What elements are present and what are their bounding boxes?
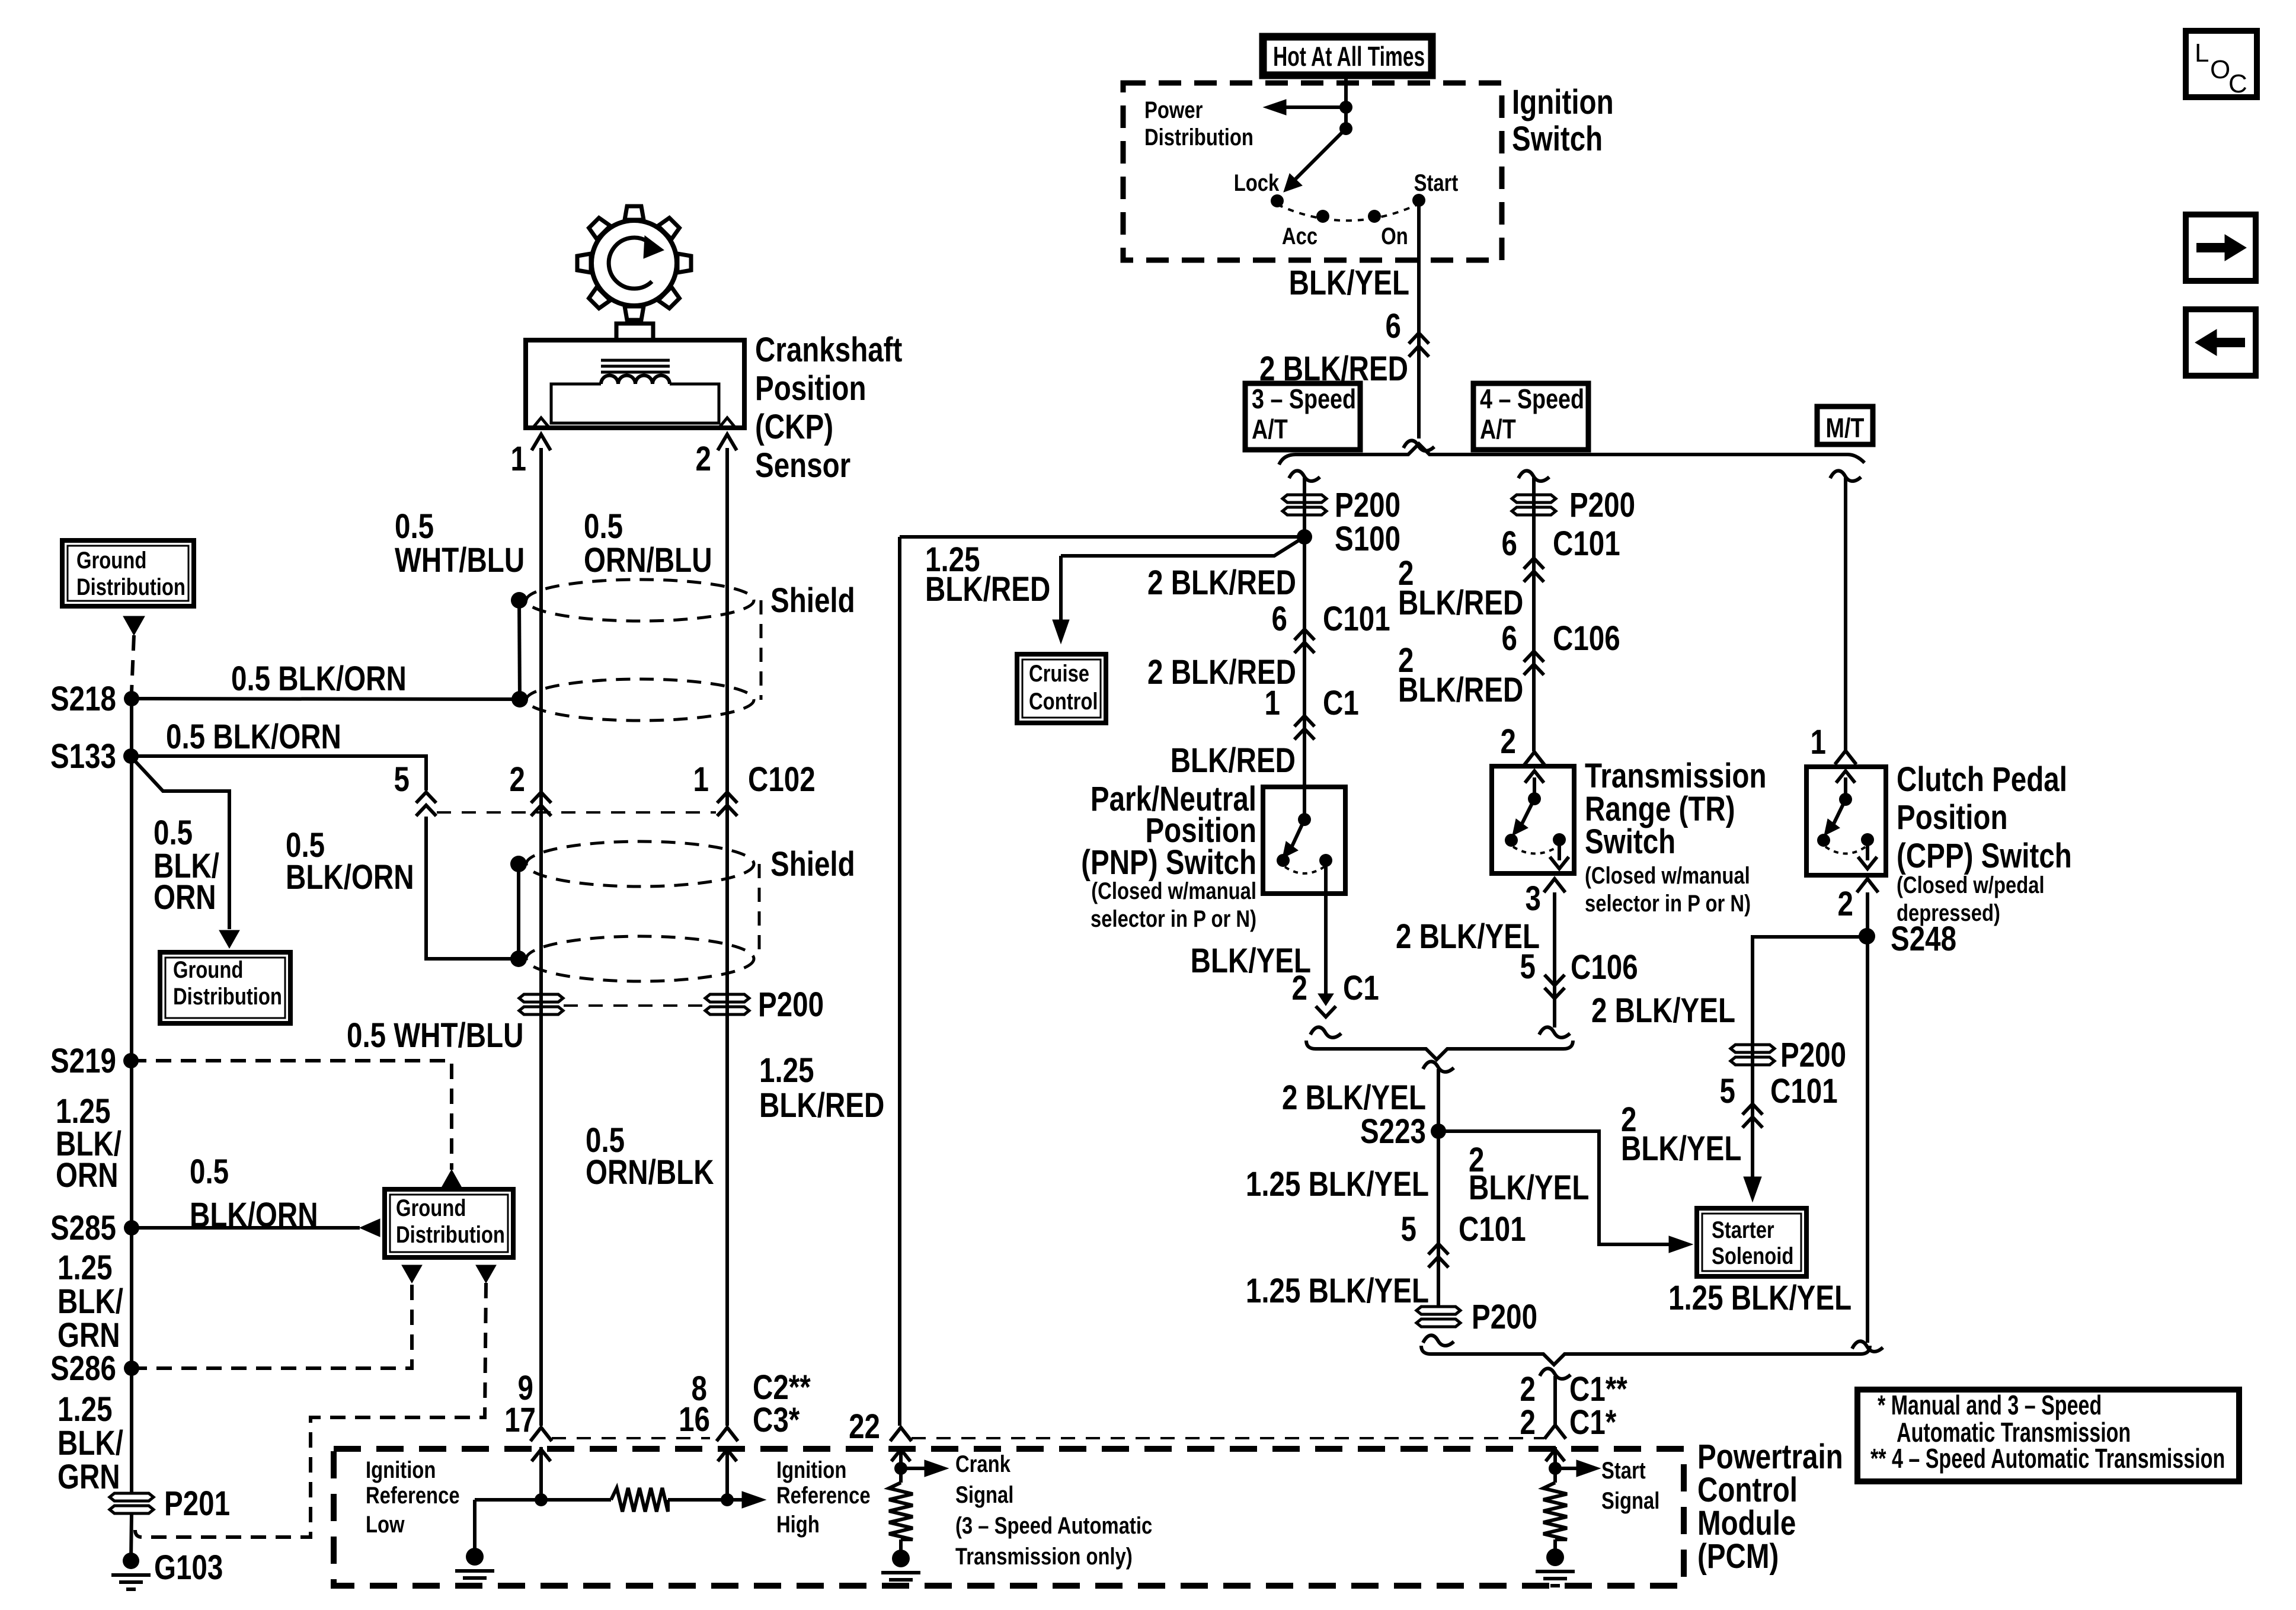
svg-text:Sensor: Sensor — [755, 447, 850, 485]
svg-text:(PNP) Switch: (PNP) Switch — [1081, 844, 1256, 882]
chevron below PCM edge pin 16 — [718, 1447, 737, 1499]
wire crank signal down to PCM pin 22 — [898, 537, 901, 1426]
PNP contact dashed arc — [1285, 867, 1324, 873]
svg-text:S133: S133 — [50, 738, 116, 776]
wire M/T branch — [1844, 478, 1847, 750]
bracket joining S223 wire and CPP wire — [1421, 1346, 1870, 1365]
svg-text:Position: Position — [755, 370, 866, 408]
label 2 BLK/YEL (above S223) — [1282, 1079, 1426, 1118]
label Transmission Range (TR) Switch — [1585, 757, 1766, 917]
svg-text:P200: P200 — [1472, 1298, 1537, 1337]
svg-text:2 BLK/RED: 2 BLK/RED — [1147, 564, 1296, 603]
connector P200 on starter wire — [1731, 1045, 1774, 1065]
svg-text:GRN: GRN — [57, 1317, 120, 1355]
label BLK/YEL — [1289, 264, 1409, 303]
wire P201 to G103 — [131, 1514, 132, 1561]
svg-text:Control: Control — [1697, 1471, 1798, 1510]
shield 1 drain dot upper — [511, 592, 527, 609]
label pin 5 (C102) — [394, 761, 410, 799]
label Power Distribution — [1144, 97, 1253, 151]
svg-text:BLK/RED: BLK/RED — [1171, 742, 1296, 780]
svg-text:C102: C102 — [748, 761, 816, 799]
break squiggle PNP out — [1310, 1027, 1341, 1037]
shield 1 drain wire — [519, 600, 520, 699]
svg-text:BLK/RED: BLK/RED — [925, 571, 1050, 609]
PCM ground left — [455, 1548, 494, 1585]
chevron below PCM edge start pin — [1546, 1447, 1565, 1468]
label BLK/YEL (PNP output) — [1191, 942, 1311, 981]
svg-text:S286: S286 — [50, 1350, 116, 1388]
svg-text:BLK/RED: BLK/RED — [759, 1087, 884, 1125]
label 1.25 BLK/ GRN (3 lines lower) — [57, 1391, 123, 1497]
svg-text:A/T: A/T — [1480, 414, 1516, 444]
shield 2 drain dot upper — [510, 856, 527, 872]
label S286 — [50, 1350, 116, 1388]
svg-text:Distribution: Distribution — [173, 983, 282, 1010]
bracket joining PNP and TR outputs — [1306, 1041, 1573, 1060]
svg-text:Control: Control — [1029, 688, 1098, 715]
svg-text:1: 1 — [693, 761, 709, 799]
shield 2 right side (dashed) — [758, 864, 761, 959]
dashed wire S286 to ground distribution 3 — [132, 1283, 412, 1368]
arrow below ground distribution box 1 — [123, 616, 145, 635]
label C106 — [1553, 620, 1620, 658]
cruise control box — [1017, 654, 1106, 723]
label 1.25 BLK/YEL (below starter solenoid) — [1668, 1279, 1851, 1318]
tag box M/T — [1817, 406, 1873, 444]
wire S223 to starter solenoid — [1438, 1131, 1670, 1244]
label Powertrain Control Module (PCM) — [1697, 1438, 1843, 1576]
connector P200 on CKP pin1 wire — [519, 994, 563, 1014]
svg-text:G103: G103 — [154, 1549, 223, 1587]
label C2** — [753, 1369, 811, 1407]
node pin22 junction — [894, 1462, 907, 1475]
branch curl 4-speed — [1518, 470, 1549, 481]
svg-text:S223: S223 — [1360, 1113, 1426, 1151]
ground distribution box 3 — [385, 1189, 513, 1257]
svg-text:2: 2 — [1501, 723, 1516, 761]
label S285 — [50, 1209, 116, 1248]
connector chevrons C102 pin1 — [717, 792, 737, 816]
svg-text:selector in P or N): selector in P or N) — [1091, 905, 1256, 932]
svg-text:Cruise: Cruise — [1029, 660, 1089, 687]
wire S133 to ground distribution 2 — [131, 757, 229, 929]
arrow above ground distribution box 3 (up) — [441, 1170, 462, 1189]
label Shield (1) — [770, 582, 855, 620]
label 0.5 ORN/BLK — [586, 1122, 714, 1192]
TR output arrow in box — [1550, 840, 1569, 869]
label pin 1 (C102) — [693, 761, 709, 799]
svg-text:selector in P or N): selector in P or N) — [1585, 890, 1751, 917]
connector chevrons C106 pin6 — [1524, 651, 1544, 675]
svg-text:2 BLK/YEL: 2 BLK/YEL — [1282, 1079, 1426, 1118]
wire S100 to cruise control (diagonal) — [1061, 537, 1304, 556]
svg-text:6: 6 — [1386, 308, 1401, 346]
CKP sensor inner frame — [551, 384, 719, 423]
label C1 — [1323, 684, 1359, 723]
svg-text:(Closed w/manual: (Closed w/manual — [1585, 862, 1750, 889]
shield 2 drain wire — [517, 864, 520, 959]
arrow to Ignition Reference High — [742, 1491, 766, 1508]
wire CKP pin2 down — [725, 448, 729, 1426]
svg-text:Distribution: Distribution — [76, 574, 186, 600]
svg-text:17: 17 — [504, 1401, 536, 1440]
svg-text:5: 5 — [1720, 1073, 1735, 1111]
label 1.25 BLK/YEL (below S223) — [1246, 1166, 1429, 1204]
svg-text:Ignition: Ignition — [776, 1457, 846, 1483]
CPP contact dashed arc — [1825, 847, 1866, 854]
svg-text:ORN/BLU: ORN/BLU — [584, 542, 712, 580]
label pin 1 (CPP) — [1811, 724, 1826, 762]
connector P200 on 4-speed branch — [1512, 495, 1556, 515]
label pin 2 (C1 PNP out) — [1292, 969, 1307, 1008]
svg-text:C106: C106 — [1553, 620, 1620, 658]
svg-text:S248: S248 — [1891, 920, 1956, 959]
label C3* — [753, 1401, 800, 1440]
label S219 — [50, 1042, 116, 1081]
wire CKP pin1 down — [539, 448, 543, 1426]
CPP lever arrow — [1824, 799, 1846, 836]
svg-text:S219: S219 — [50, 1042, 116, 1081]
label 2 BLK/YEL (TR out) — [1396, 918, 1540, 956]
svg-text:Distribution: Distribution — [1144, 124, 1253, 151]
svg-text:1.25 BLK/YEL: 1.25 BLK/YEL — [1246, 1272, 1429, 1311]
ground distribution box 2 — [160, 952, 290, 1023]
resistor crank signal — [889, 1468, 913, 1551]
svg-text:Shield: Shield — [770, 582, 855, 620]
svg-text:* Manual and 3 – Speed: * Manual and 3 – Speed — [1878, 1390, 2102, 1420]
svg-text:Hot At All Times: Hot At All Times — [1273, 41, 1425, 72]
label Ignition Switch — [1512, 84, 1614, 159]
label Crankshaft Position (CKP) Sensor — [755, 331, 902, 485]
PNP output wire — [1324, 860, 1328, 996]
svg-text:2: 2 — [1838, 885, 1853, 924]
branch curl below middle bracket — [1423, 1061, 1454, 1071]
wire from Start contact down — [1417, 200, 1421, 438]
PNP pivot dot — [1298, 813, 1311, 826]
svg-text:(CPP) Switch: (CPP) Switch — [1897, 837, 2072, 876]
wire C102 pin5 to shield 2 drain — [426, 817, 519, 959]
connector chevrons C101 pin5 (starter) — [1742, 1104, 1763, 1128]
connector chevrons C101 pin6 — [1294, 629, 1315, 653]
svg-text:ORN: ORN — [154, 879, 216, 917]
break curl above lower bracket (CPP wire) — [1852, 1341, 1883, 1351]
label pin 9 — [518, 1369, 533, 1408]
park/neutral position switch box — [1263, 787, 1345, 894]
label C106 (TR out) — [1571, 949, 1638, 987]
svg-text:Signal: Signal — [955, 1481, 1013, 1508]
svg-text:S285: S285 — [50, 1209, 116, 1248]
shield 2 lower ring — [526, 936, 754, 981]
svg-text:A/T: A/T — [1252, 414, 1288, 444]
PCM dashed box — [334, 1449, 1684, 1586]
wire S133 to C102 pin5 — [131, 756, 426, 790]
label 0.5 BLK/ ORN (3 lines) — [154, 814, 219, 917]
svg-text:4 – Speed: 4 – Speed — [1480, 383, 1584, 414]
CKP pin notch 2 — [719, 418, 736, 428]
shield 2 upper ring — [526, 841, 754, 886]
label 2 BLK/YEL (left of starter drop) — [1621, 1101, 1741, 1169]
wire 4-speed branch upper — [1532, 478, 1536, 751]
svg-text:GRN: GRN — [57, 1458, 120, 1497]
wire pin22 internal — [899, 1468, 903, 1483]
label pin 22 — [849, 1408, 880, 1446]
label 2 BLK/RED (4-speed lower) — [1398, 642, 1523, 710]
break curl below P200 (S223 wire) — [1423, 1335, 1454, 1345]
label 2 BLK/RED (above C101) — [1147, 564, 1296, 603]
connector fork TR pin2 — [1524, 752, 1545, 766]
svg-text:BLK/: BLK/ — [57, 1425, 123, 1463]
label C1 (PNP out) — [1343, 969, 1379, 1008]
svg-text:Distribution: Distribution — [396, 1221, 505, 1248]
label 2 BLK/RED — [1259, 350, 1408, 389]
svg-text:22: 22 — [849, 1408, 880, 1446]
node pin16 junction — [721, 1493, 734, 1506]
label P200 (3-speed branch) — [1335, 486, 1400, 525]
svg-text:P200: P200 — [1335, 486, 1400, 525]
svg-text:2: 2 — [696, 440, 711, 479]
break squiggle at bottom of ignition feed — [1403, 440, 1434, 450]
label P200 (starter wire) — [1780, 1036, 1846, 1075]
svg-text:(PCM): (PCM) — [1697, 1538, 1779, 1576]
svg-text:6: 6 — [1272, 600, 1287, 639]
label pin 6 (C101 4-speed) — [1502, 525, 1517, 564]
wire S285 to ground distribution 3 — [132, 1219, 380, 1237]
svg-text:Acc: Acc — [1282, 223, 1318, 249]
svg-text:(Closed w/pedal: (Closed w/pedal — [1897, 872, 2045, 898]
svg-text:C: C — [2228, 69, 2247, 98]
CPP left contact — [1817, 834, 1830, 847]
label Lock — [1234, 169, 1280, 196]
starter feed arrowhead — [1669, 1236, 1693, 1253]
connector P201 — [110, 1493, 154, 1513]
svg-text:5: 5 — [394, 761, 410, 799]
connector P200 on CKP pin2 wire — [705, 994, 749, 1014]
page marker LOC box — [2186, 31, 2257, 98]
svg-text:ORN/BLK: ORN/BLK — [586, 1154, 714, 1192]
CPP right contact — [1861, 833, 1874, 846]
wire S248 to starter drop — [1753, 937, 1867, 1177]
svg-text:6: 6 — [1502, 525, 1517, 564]
label P200 (CKP wires) — [758, 986, 824, 1025]
label 1.25 BLK/ GRN (3 lines upper) — [57, 1249, 123, 1355]
bracket joining 3-speed / 4-speed / M-T branches — [1279, 444, 1865, 465]
svg-text:Ignition: Ignition — [366, 1457, 436, 1483]
svg-text:Start: Start — [1414, 169, 1459, 196]
svg-text:Transmission: Transmission — [1585, 757, 1766, 796]
label C101 (4-speed) — [1553, 525, 1620, 564]
svg-text:Switch: Switch — [1585, 823, 1675, 862]
label S218 — [50, 680, 116, 719]
CKP pin1 arrow — [532, 434, 551, 468]
label pin 6 (C101 3-speed) — [1272, 600, 1287, 639]
svg-text:C3*: C3* — [753, 1401, 800, 1440]
svg-text:C1: C1 — [1343, 969, 1379, 1008]
svg-text:2 BLK/YEL: 2 BLK/YEL — [1396, 918, 1540, 956]
svg-text:M/T: M/T — [1826, 412, 1865, 443]
svg-text:BLK/RED: BLK/RED — [1398, 584, 1523, 623]
arrow below ground distribution box 3 (right) — [476, 1265, 496, 1283]
svg-text:BLK/: BLK/ — [57, 1283, 123, 1321]
svg-text:Ignition: Ignition — [1512, 84, 1614, 122]
svg-text:P200: P200 — [758, 986, 824, 1025]
label C1* — [1569, 1404, 1617, 1442]
shield 2 drain dot lower — [510, 950, 527, 967]
connector fork at PCM start pin — [1544, 1425, 1566, 1439]
label 2 BLK/RED (4-speed upper) — [1398, 555, 1523, 623]
wire 3-speed branch upper — [1303, 478, 1306, 537]
connector chevrons C101 4-speed — [1524, 558, 1544, 582]
svg-text:1: 1 — [1811, 724, 1826, 762]
label 2 (CKP pin2) — [696, 440, 711, 479]
branch curl M/T — [1830, 470, 1861, 481]
svg-text:C1: C1 — [1323, 684, 1359, 723]
splice S286 — [124, 1361, 139, 1376]
CPP output arrow in box — [1858, 840, 1877, 869]
label S100 — [1335, 520, 1400, 559]
svg-text:P200: P200 — [1569, 486, 1635, 525]
splice S223 — [1431, 1124, 1446, 1139]
connector fork below CPP (pin 2) — [1857, 879, 1878, 892]
svg-text:C101: C101 — [1459, 1211, 1526, 1249]
svg-text:1.25: 1.25 — [759, 1052, 814, 1090]
connector chevrons C106 pin5 (down) — [1544, 975, 1565, 998]
label 1.25 BLK/RED (crank signal wire) — [925, 541, 1050, 609]
label 1.25 BLK/YEL (above P200) — [1246, 1272, 1429, 1311]
label pin 1 (C1) — [1265, 684, 1280, 723]
contact Start — [1412, 194, 1425, 207]
svg-text:Low: Low — [366, 1511, 405, 1538]
svg-text:(3 – Speed Automatic: (3 – Speed Automatic — [955, 1512, 1152, 1539]
svg-text:Switch: Switch — [1512, 120, 1603, 159]
branch curl 3-speed — [1289, 470, 1320, 481]
break squiggle TR out — [1539, 1027, 1570, 1037]
svg-text:Reference: Reference — [776, 1482, 871, 1509]
shield 1 drain dot lower — [511, 691, 528, 708]
resistor ignition reference — [611, 1488, 668, 1512]
ignition switch dashed box — [1123, 83, 1502, 260]
label P201 — [164, 1485, 230, 1523]
dashed wire ground distribution 3 to PCM area — [135, 1283, 486, 1537]
label S223 — [1360, 1113, 1426, 1151]
svg-text:High: High — [776, 1511, 820, 1538]
label pin 16 — [679, 1401, 710, 1439]
label 0.5 BLK/ORN (S285 wire) — [190, 1153, 318, 1235]
svg-text:Powertrain: Powertrain — [1697, 1438, 1843, 1477]
TR input arrow — [1525, 771, 1544, 798]
svg-text:Position: Position — [1897, 799, 2008, 837]
splice S218 — [124, 691, 139, 706]
label Ignition Reference High — [776, 1457, 871, 1538]
svg-text:2: 2 — [1292, 969, 1307, 1008]
thin dashed connector line pin22 to C1* — [912, 1437, 1544, 1439]
label 2 BLK/YEL (S248 wire) — [1591, 992, 1735, 1030]
CKP pin notch 1 — [533, 418, 549, 428]
node start signal junction — [1549, 1462, 1562, 1475]
label pin 17 — [504, 1401, 536, 1440]
label BLK/RED (PNP feed) — [1171, 742, 1296, 780]
ignition switch lever (Lock position) — [1284, 129, 1346, 192]
svg-text:WHT/BLU: WHT/BLU — [395, 542, 525, 580]
svg-text:S100: S100 — [1335, 520, 1400, 559]
footnote box — [1857, 1390, 2239, 1481]
svg-text:BLK/YEL: BLK/YEL — [1289, 264, 1409, 303]
svg-text:0.5: 0.5 — [584, 508, 623, 546]
dashed wire S219 to ground distribution 3 — [131, 1061, 452, 1170]
svg-text:(Closed w/manual: (Closed w/manual — [1091, 878, 1256, 904]
chevron below PCM edge pin 22 — [891, 1447, 910, 1468]
TR left contact — [1505, 834, 1518, 847]
svg-text:Starter: Starter — [1712, 1217, 1774, 1243]
svg-text:3 – Speed: 3 – Speed — [1252, 383, 1356, 414]
wire S100 to crank-signal drop — [900, 535, 1304, 539]
CKP sensor coil — [601, 376, 670, 385]
label 0.5 BLK/ORN (S218 wire) — [231, 660, 407, 699]
svg-text:BLK/YEL: BLK/YEL — [1469, 1169, 1589, 1208]
label pin 5 (C101 S223) — [1401, 1211, 1416, 1249]
splice S219 — [123, 1053, 139, 1068]
svg-text:1: 1 — [1265, 684, 1280, 723]
node on feed wire (upper) — [1339, 101, 1352, 114]
connector fork PCM pin 16 — [717, 1427, 738, 1441]
label Ignition Reference Low — [366, 1457, 460, 1538]
page marker back-arrow box — [2186, 309, 2256, 376]
label Crank Signal (3-speed only) — [955, 1451, 1152, 1570]
svg-text:** 4 – Speed Automatic Transmi: ** 4 – Speed Automatic Transmission — [1870, 1443, 2225, 1474]
svg-text:1.25: 1.25 — [57, 1249, 113, 1288]
label 1.25 BLK/ ORN (3 lines) — [56, 1093, 121, 1195]
label S248 — [1891, 920, 1956, 959]
shield 1 right side (dashed) — [760, 600, 763, 700]
svg-text:C101: C101 — [1553, 525, 1620, 564]
dashed connector line C102 — [437, 811, 716, 814]
label On — [1381, 223, 1408, 249]
page marker forward-arrow box — [2186, 215, 2256, 281]
power source label: Hot At All Times box — [1263, 37, 1432, 75]
connector fork CPP pin1 — [1835, 751, 1856, 764]
label C101 (starter) — [1770, 1073, 1838, 1111]
svg-text:On: On — [1381, 223, 1408, 249]
TR lever arrow — [1512, 799, 1534, 836]
svg-text:0.5 BLK/ORN: 0.5 BLK/ORN — [166, 718, 341, 757]
connector chevrons on BLK/YEL wire — [1409, 333, 1429, 357]
CKP reluctor gear — [577, 206, 691, 320]
CKP pin2 arrow — [718, 434, 737, 468]
connector chevrons C102 pin5 — [416, 792, 436, 816]
svg-text:O: O — [2210, 55, 2230, 84]
starter solenoid box — [1697, 1208, 1806, 1276]
label Park/Neutral Position (PNP) Switch — [1081, 780, 1256, 932]
connector P200 on S223 wire — [1416, 1307, 1460, 1327]
connector chevrons C101 pin5 (S223 wire) — [1428, 1244, 1448, 1267]
label 0.5 WHT/BLU (pin1) — [395, 508, 525, 580]
label C101 (S223 wire) — [1459, 1211, 1526, 1249]
svg-text:Solenoid: Solenoid — [1712, 1243, 1793, 1269]
CKP sensor core lines — [601, 360, 670, 372]
svg-text:Lock: Lock — [1234, 169, 1280, 196]
CKP sensor body box — [526, 340, 744, 428]
svg-text:(CKP): (CKP) — [755, 408, 833, 447]
svg-text:Module: Module — [1697, 1505, 1796, 1543]
svg-text:BLK/ORN: BLK/ORN — [286, 859, 414, 897]
transmission range switch box — [1492, 766, 1574, 873]
shield 1 lower ring — [526, 679, 754, 721]
tag box 3-Speed A/T — [1245, 383, 1360, 450]
label Start — [1414, 169, 1459, 196]
svg-text:Start: Start — [1601, 1457, 1646, 1484]
connector fork PCM pin 22 — [890, 1427, 912, 1441]
label pin 2 (C102) — [510, 761, 525, 799]
